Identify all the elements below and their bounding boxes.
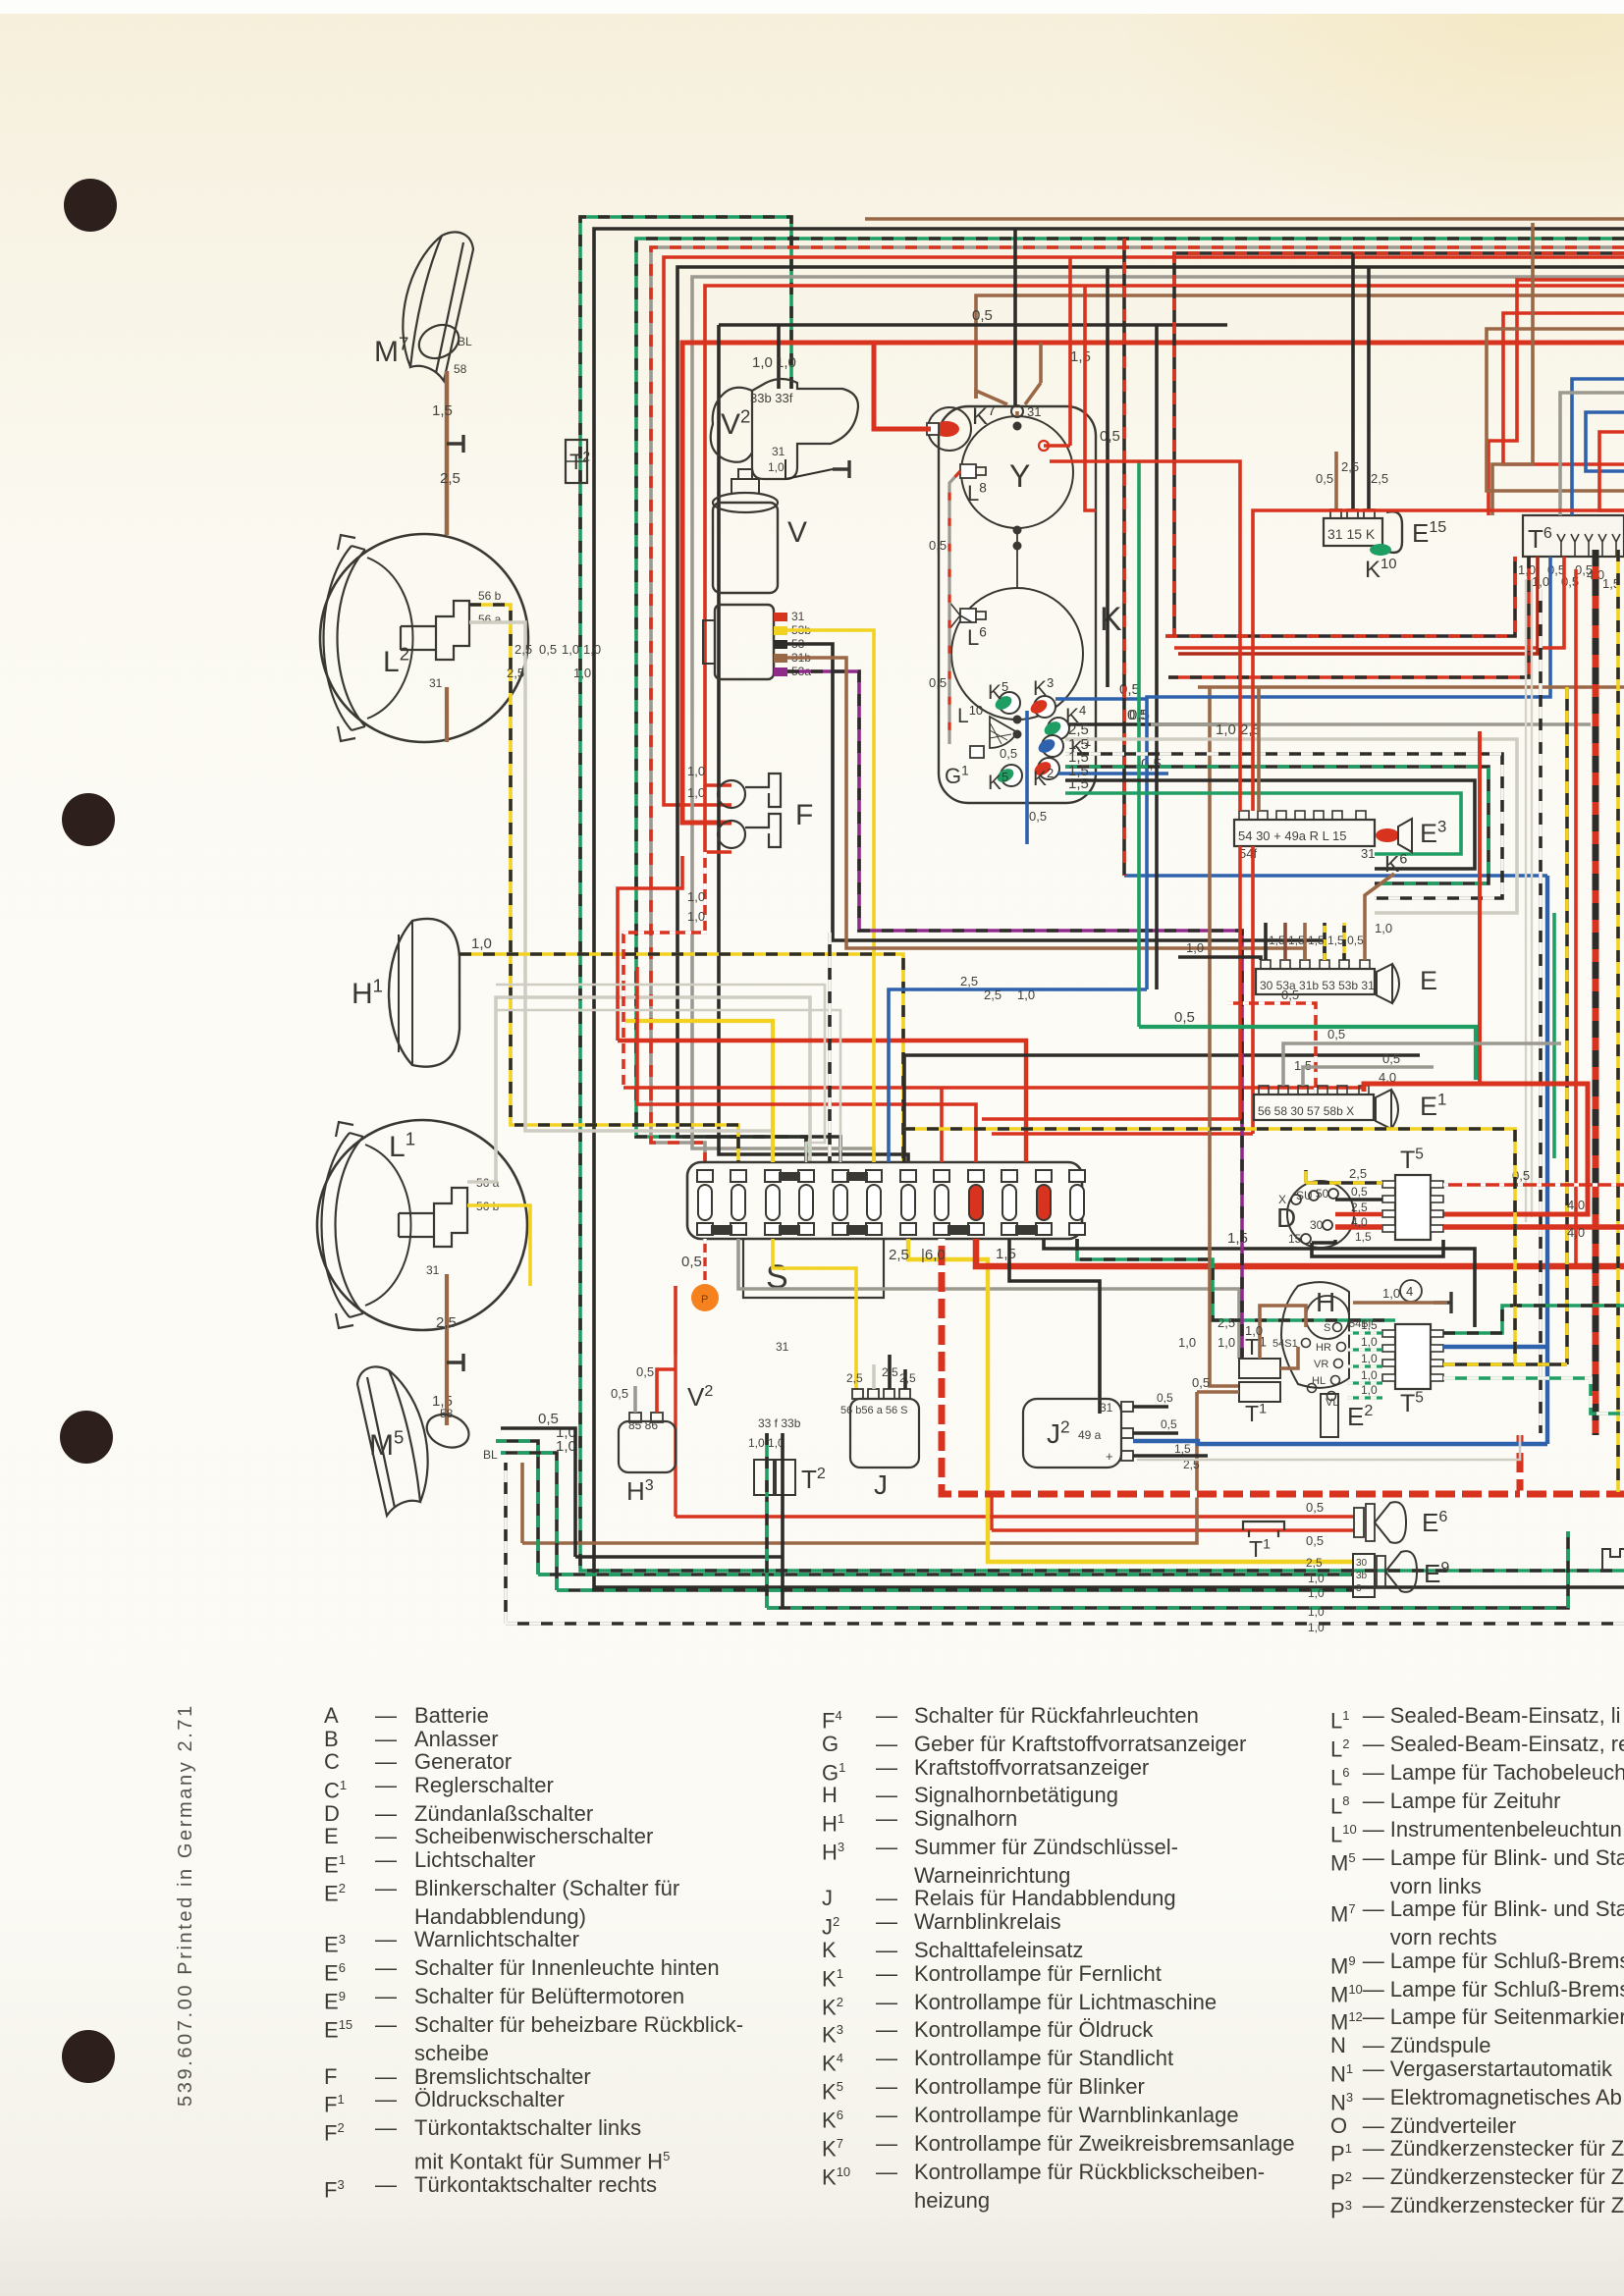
wire red step 3: [637, 967, 976, 1162]
lamp K4: [1048, 718, 1069, 739]
wire green/black loop left-outer: [580, 217, 1624, 1571]
wire red fuse1 drop: [703, 1239, 706, 1282]
switch E2 stalk: [1321, 1394, 1338, 1437]
wire gray/red cluster inner: [949, 471, 960, 744]
wire red K7 feed: [874, 343, 931, 429]
gauge Y circle: [961, 416, 1073, 528]
wire black center v3: [1106, 267, 1110, 687]
svg-text:56 58 30 57 58b X: 56 58 30 57 58b X: [1258, 1104, 1354, 1118]
switch E1 bar: [1254, 1095, 1374, 1120]
wire blue right h 892: [1124, 874, 1547, 878]
svg-text:D: D: [1276, 1202, 1296, 1233]
punch hole 1: [64, 179, 117, 232]
svg-text:0,5: 0,5: [1306, 1500, 1324, 1515]
svg-text:31: 31: [429, 676, 443, 690]
svg-text:K6: K6: [1384, 851, 1407, 877]
wire green H stub 1375: [1347, 1348, 1382, 1351]
svg-text:J2: J2: [1047, 1416, 1070, 1449]
wire nest brown a: [1487, 329, 1624, 491]
svg-text:0,5: 0,5: [636, 1364, 654, 1379]
wire red top d: [705, 286, 1624, 785]
svg-text:1,0: 1,0: [1218, 1335, 1235, 1350]
wire purple run: [787, 671, 1242, 1359]
svg-text:K10: K10: [1365, 557, 1397, 583]
wire black-red dash top: [1174, 253, 1624, 636]
svg-text:0,5: 0,5: [539, 642, 557, 657]
svg-text:1,0: 1,0: [768, 460, 785, 474]
svg-text:31: 31: [1027, 404, 1041, 419]
svg-text:E15: E15: [1412, 518, 1446, 548]
svg-text:4,0: 4,0: [1567, 1198, 1585, 1212]
wire t6 red drop a: [1168, 557, 1529, 677]
svg-text:0,5: 0,5: [1100, 428, 1120, 445]
svg-text:0,5: 0,5: [1316, 471, 1333, 486]
svg-text:HL: HL: [1312, 1375, 1326, 1387]
connector T5 lower: [1395, 1324, 1431, 1389]
svg-text:1,0: 1,0: [687, 909, 705, 924]
D pin 30: [1323, 1220, 1332, 1230]
svg-text:2,5: 2,5: [1341, 459, 1359, 474]
wire e3 to fuse red: [1238, 846, 1242, 1119]
punch hole 2: [62, 793, 115, 846]
wire gray e1 up 0,5b: [1303, 1067, 1434, 1086]
svg-text:V: V: [787, 516, 807, 549]
svg-text:1,0: 1,0: [1245, 1323, 1263, 1338]
wire red riser 688: [674, 1286, 677, 1355]
svg-text:2,5: 2,5: [440, 470, 460, 487]
svg-text:Y: Y: [1009, 458, 1030, 494]
wire yellow/black horn feed: [460, 954, 903, 1162]
wire brown Y 31 link: [1015, 411, 1019, 416]
wire yellow mid-right run: [903, 1129, 1515, 1364]
svg-text:1,5: 1,5: [996, 1246, 1016, 1262]
wire gray fuse2 route: [738, 1239, 1239, 1359]
svg-text:1,5: 1,5: [1355, 1230, 1372, 1244]
wire brown E15 up: [1334, 452, 1338, 509]
wire E up 1369: [1342, 923, 1346, 960]
svg-text:L6: L6: [967, 625, 987, 650]
svg-text:1,0: 1,0: [556, 1438, 576, 1455]
wire red top a: [664, 257, 1624, 805]
wire E up 1329: [1303, 923, 1307, 960]
headlamp L2 lens: [324, 535, 366, 741]
wire black E left 1,0: [1178, 957, 1261, 960]
wire brown L1 31: [445, 1274, 449, 1364]
wire red D 2,5: [1335, 1212, 1382, 1217]
fuse bus 3-4: [779, 1225, 800, 1235]
switch E15: [1324, 518, 1382, 546]
svg-text:E1: E1: [1420, 1091, 1446, 1121]
svg-text:0,5: 0,5: [1382, 1051, 1400, 1066]
node Y-K: [1013, 526, 1022, 535]
horn contact H: [1281, 1282, 1349, 1388]
svg-text:1,0: 1,0: [687, 889, 705, 904]
svg-text:2,5: 2,5: [507, 666, 524, 680]
svg-text:1,5: 1,5: [1174, 1442, 1191, 1456]
node 31 cluster: [1011, 405, 1023, 417]
svg-text:BL: BL: [458, 335, 472, 348]
svg-text:2,5: 2,5: [889, 1247, 909, 1263]
wire black j2 plus: [1133, 1454, 1208, 1458]
fuse 9: [968, 1170, 984, 1182]
wire black center v6: [1155, 325, 1159, 989]
wire greenwh T5 out: [1443, 1378, 1624, 1414]
svg-text:L2: L2: [383, 644, 409, 678]
svg-text:1,5: 1,5: [1068, 775, 1089, 792]
wire red thick feed: [682, 343, 1624, 823]
wire black T5 loop: [1312, 1240, 1443, 1256]
H pin S2: [1308, 1384, 1317, 1393]
wire nest blue b: [1586, 412, 1624, 471]
lamp M5 housing: [357, 1366, 428, 1516]
lamp K7: [928, 407, 971, 451]
fuse 12: [1069, 1170, 1085, 1182]
svg-text:1,0: 1,0: [1361, 1335, 1378, 1349]
wire black center v: [1013, 229, 1017, 405]
svg-text:1,0: 1,0: [1308, 1605, 1325, 1619]
ground tick L1: [447, 1354, 463, 1371]
svg-text:2,5: 2,5: [1351, 1201, 1368, 1214]
pin V 53a: [774, 667, 787, 676]
lamp M7 bulb: [413, 319, 464, 365]
box E9: [1353, 1554, 1375, 1597]
svg-text:1,0: 1,0: [776, 354, 796, 371]
wire black D 0,5: [1335, 1198, 1382, 1201]
wire black 53 run: [787, 644, 1325, 960]
wire brown right h 700: [1198, 685, 1624, 689]
punch hole 4: [62, 2030, 115, 2083]
wire green H stub 1392: [1347, 1364, 1382, 1367]
cluster K outline: [939, 406, 1096, 803]
wire red e1 4,0: [1364, 1084, 1588, 1214]
lamp K10: [1386, 511, 1402, 553]
wire blackred right h 648: [1165, 557, 1515, 636]
svg-text:49 a: 49 a: [1078, 1428, 1102, 1442]
svg-text:J: J: [874, 1469, 888, 1500]
wire green fuse12 route: [1077, 1239, 1395, 1320]
svg-text:30: 30: [1310, 1218, 1324, 1232]
wire black J up: [888, 1355, 892, 1389]
svg-text:54 30 + 49a R L 15: 54 30 + 49a R L 15: [1238, 828, 1346, 843]
svg-text:L8: L8: [967, 481, 987, 506]
wiper V gearbox: [715, 605, 774, 679]
wire black fuse10 route: [1009, 1239, 1100, 1414]
wiper V body: [713, 503, 778, 593]
H pin HR: [1337, 1343, 1346, 1352]
svg-text:0,5: 0,5: [1192, 1375, 1210, 1390]
wire black D 15: [1312, 1240, 1335, 1243]
svg-text:E9: E9: [1424, 1559, 1449, 1588]
wire black/white bottom: [506, 1463, 1624, 1624]
wire red e3 drop1: [1050, 461, 1240, 811]
svg-text:1,0: 1,0: [1361, 1368, 1378, 1382]
wire yellow right big: [908, 1239, 1353, 1562]
svg-text:1,0: 1,0: [687, 785, 705, 800]
wire right v redblk thick: [1593, 550, 1599, 1435]
wire blue T5 out: [1443, 1345, 1547, 1349]
wire brown mid top: [976, 295, 1624, 399]
wire j2 49a stub: [1133, 1431, 1178, 1435]
svg-text:1,5: 1,5: [1227, 1230, 1248, 1247]
wire green bottom a: [496, 1441, 1353, 1575]
wire right v blk/ye: [1565, 687, 1569, 1364]
svg-text:H: H: [1316, 1287, 1335, 1317]
svg-text:0,5: 0,5: [972, 307, 993, 324]
wire right v red: [1574, 569, 1578, 1266]
wire white L2 56a: [469, 622, 773, 1162]
svg-text:K2: K2: [1033, 766, 1054, 790]
svg-text:1,5: 1,5: [1070, 348, 1091, 365]
svg-text:VR: VR: [1314, 1359, 1328, 1370]
svg-text:1,0: 1,0: [1308, 1572, 1325, 1585]
wire black bottom BL: [501, 1453, 1353, 1590]
wire red e3 drop2: [1253, 510, 1624, 811]
wire right v white thin b: [1525, 579, 1527, 1222]
headlamp L1 reflector: [365, 1145, 411, 1306]
wire gray H3 up: [633, 1386, 637, 1413]
wire blue v 905: [889, 989, 1147, 1162]
wire black E15 up1: [1351, 253, 1355, 509]
node Y right: [1039, 441, 1049, 451]
wire yellow v 890: [785, 630, 874, 1162]
lamp M7 housing: [403, 232, 473, 381]
svg-text:K3: K3: [1033, 675, 1054, 700]
wire t6 blue drop: [1147, 557, 1550, 989]
wire red/white stripe route: [942, 1239, 1624, 1494]
wire red step 1: [618, 1041, 1026, 1162]
lamp K2: [1038, 758, 1059, 779]
switch F upper: [718, 774, 781, 808]
wire nest red b: [1503, 313, 1624, 464]
wire darkred right h 666: [1178, 557, 1538, 654]
wire blue K3 out: [1056, 697, 1147, 701]
fuse 6: [866, 1170, 882, 1182]
wire yellow L2 56b: [469, 605, 738, 1162]
wire right v blue: [1545, 876, 1549, 1444]
svg-text:31: 31: [426, 1263, 440, 1277]
svg-text:31: 31: [791, 610, 805, 623]
svg-text:1,5: 1,5: [1361, 1318, 1378, 1332]
wire red bottom run b: [992, 1528, 1354, 1531]
connector T1 e6: [1243, 1522, 1284, 1537]
svg-text:1,0: 1,0: [752, 354, 773, 371]
svg-text:1,0: 1,0: [1178, 1335, 1196, 1350]
wire e3 nest blk/wh: [1065, 754, 1502, 898]
wire yellow fuse3 route: [773, 1239, 856, 1390]
wire red Y sense: [1044, 444, 1070, 448]
wire E up 1289: [1264, 923, 1268, 960]
svg-text:T1: T1: [1249, 1536, 1271, 1562]
wire right v ye/blk edge: [1616, 550, 1620, 1492]
wire blkye T5 out: [1443, 1362, 1567, 1366]
svg-text:0,5: 0,5: [1119, 681, 1140, 698]
horn H1 body: [389, 919, 460, 1067]
wire black bottom 58: [501, 1428, 783, 1557]
wire black 0,5 line: [719, 323, 1227, 327]
wire gray center v7: [1151, 722, 1591, 726]
svg-text:0,5: 0,5: [681, 1254, 702, 1270]
pin V 53: [774, 640, 787, 649]
node K bottom: [1013, 716, 1022, 724]
wire brown M7 drop: [445, 371, 450, 535]
svg-text:+: +: [1106, 1449, 1113, 1464]
svg-text:0,5: 0,5: [1029, 809, 1047, 824]
svg-text:0,5: 0,5: [1174, 1009, 1195, 1026]
edge connector bottom right: [1602, 1549, 1624, 1571]
svg-text:30: 30: [1356, 1558, 1368, 1569]
gauge K circle: [951, 588, 1083, 720]
svg-text:2,5: 2,5: [984, 988, 1001, 1002]
svg-text:3b: 3b: [1356, 1571, 1368, 1581]
wire red step 2b: [940, 1088, 944, 1162]
socket G1: [970, 746, 984, 758]
svg-text:M5: M5: [369, 1427, 404, 1462]
svg-text:T5: T5: [1400, 1390, 1424, 1418]
relay J: [850, 1399, 919, 1468]
fuse box S lower tab: [743, 1239, 884, 1298]
switch E1 knob: [1376, 1090, 1398, 1129]
circled 4: [1400, 1280, 1422, 1302]
wire white J2 plus loop: [1137, 1435, 1520, 1460]
wire red thick 4.0 run: [976, 1239, 1624, 1266]
svg-text:P: P: [701, 1294, 708, 1306]
lamp L10 fan: [990, 717, 1017, 748]
bulb L8: [960, 464, 976, 478]
fuse 11: [1036, 1170, 1052, 1182]
svg-text:H3: H3: [626, 1476, 654, 1506]
svg-text:L10: L10: [957, 703, 983, 727]
headlamp L1 rim: [317, 1120, 527, 1330]
wire e3 nest green: [1065, 793, 1461, 854]
pin V 53b: [774, 626, 787, 635]
wire E up 1390: [1363, 923, 1367, 960]
wire gray top c: [692, 277, 1624, 1162]
wire black K4 out: [1068, 722, 1227, 726]
svg-text:31: 31: [772, 445, 785, 458]
wire red D 4,0: [1335, 1224, 1382, 1230]
svg-text:2,5: 2,5: [846, 1371, 863, 1385]
wire brown right v: [1492, 223, 1533, 515]
connector T6: [1523, 515, 1624, 557]
svg-text:1,0: 1,0: [471, 935, 492, 952]
svg-text:1,0: 1,0: [583, 642, 601, 657]
svg-text:1,5 1,5 1,5 1,5 0,5: 1,5 1,5 1,5 1,5 0,5: [1269, 934, 1364, 947]
wire nest blue a: [1572, 379, 1624, 515]
wire red center v1: [1068, 257, 1072, 446]
fuse 1: [697, 1170, 713, 1182]
wire red center v2: [1085, 286, 1096, 510]
svg-text:2,5: 2,5: [899, 1371, 916, 1385]
svg-text:50: 50: [1316, 1187, 1329, 1201]
bell E6: [1354, 1508, 1364, 1537]
svg-text:E6: E6: [1422, 1508, 1447, 1537]
wire brown top right: [865, 217, 1624, 221]
svg-text:85 86: 85 86: [628, 1418, 658, 1432]
H pin VR: [1334, 1360, 1343, 1368]
fuse bus 5-6: [846, 1225, 868, 1235]
svg-text:0,5: 0,5: [611, 1386, 628, 1401]
ground 4: [1434, 1292, 1451, 1313]
headlamp L2 rim: [320, 534, 528, 742]
fuse 3: [765, 1170, 781, 1182]
wire yellow L1 56b: [467, 1205, 530, 1286]
wire red dash E-E1: [1227, 1003, 1316, 1095]
svg-text:2,5: 2,5: [1306, 1556, 1323, 1570]
wire brown E right up: [1365, 874, 1394, 923]
wire white L1 56a: [467, 997, 810, 1182]
H pin VL: [1327, 1392, 1336, 1401]
svg-text:33 f 33b: 33 f 33b: [758, 1416, 801, 1430]
connector T1 lower: [1239, 1382, 1280, 1402]
headlamp L1 bulb: [399, 1188, 467, 1247]
switch F lower: [718, 814, 781, 848]
svg-text:56 a: 56 a: [478, 613, 502, 626]
wire green bottom b: [767, 1497, 1568, 1608]
fuse box S outline: [687, 1162, 1082, 1239]
wire e3 nest white: [1065, 739, 1517, 913]
wire green E loop: [1139, 1027, 1476, 1080]
wire e3 nest blk/gn: [1065, 767, 1489, 883]
svg-text:1,5: 1,5: [432, 402, 453, 419]
wire blackred center v4: [1122, 239, 1126, 876]
headlamp L2 reflector: [367, 558, 413, 719]
svg-text:S: S: [1324, 1322, 1330, 1334]
svg-text:2,5: 2,5: [1349, 1166, 1367, 1181]
svg-text:2,5: 2,5: [882, 1365, 898, 1379]
wire greenblk T5 out: [1443, 1306, 1624, 1333]
H pin 54S1: [1302, 1339, 1311, 1348]
wire brown T1 up: [1260, 1306, 1306, 1359]
wire yellow mid horiz: [625, 1021, 773, 1162]
wire nest gray a: [1560, 393, 1624, 515]
wire black V2 31 lead: [785, 459, 833, 479]
wire E up 1349: [1323, 923, 1326, 960]
svg-text:E3: E3: [1420, 818, 1446, 848]
bell E9: [1377, 1556, 1385, 1587]
svg-text:2,5: 2,5: [514, 642, 532, 657]
svg-text:V2: V2: [687, 1382, 713, 1412]
wire black V2-T2: [781, 1433, 785, 1608]
connector T5 upper: [1395, 1175, 1431, 1240]
wire red step 2: [623, 1086, 1364, 1090]
svg-text:31: 31: [1100, 1401, 1113, 1415]
buzzer H3: [619, 1421, 676, 1472]
wire brown v pin31b: [787, 658, 1305, 960]
wire white J up: [872, 1364, 876, 1389]
svg-text:4,0: 4,0: [1567, 1225, 1585, 1240]
wire red right 1140: [982, 1117, 1240, 1121]
wire nest red c: [1599, 432, 1624, 510]
horn H1 flange: [399, 921, 412, 1065]
svg-text:0,5: 0,5: [1000, 746, 1017, 761]
wire green V2-T2: [765, 1433, 769, 1497]
svg-text:|6,0: |6,0: [921, 1247, 946, 1263]
fuse 7: [900, 1170, 916, 1182]
wire black top b: [677, 267, 1624, 1162]
svg-text:F: F: [795, 799, 813, 831]
svg-text:2,5: 2,5: [436, 1314, 457, 1331]
wire gray/red top: [651, 247, 1624, 1162]
wire brown bottom run: [522, 1392, 1197, 1543]
svg-text:0,5: 0,5: [1157, 1391, 1173, 1405]
relay J2: [1023, 1399, 1121, 1468]
switch E bar: [1256, 969, 1375, 994]
svg-text:0,5: 0,5: [929, 675, 947, 690]
wire right v green: [1552, 913, 1556, 1158]
fuse bus 10-11: [1015, 1225, 1038, 1235]
connector T2 top: [566, 440, 587, 483]
svg-text:54S1: 54S1: [1272, 1338, 1298, 1350]
